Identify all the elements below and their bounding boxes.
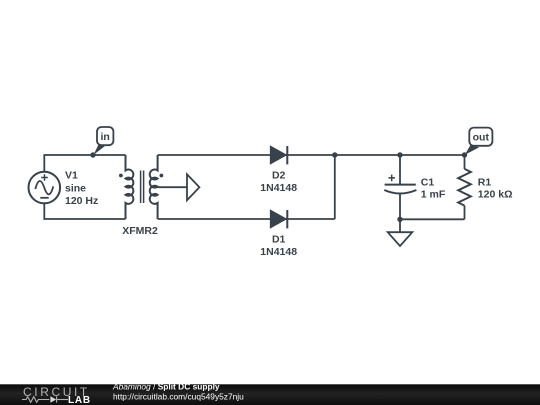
svg-text:120 Hz: 120 Hz [65, 195, 98, 207]
node in junction dot [90, 152, 95, 157]
secondary winding [150, 155, 158, 219]
phase dot primary [119, 174, 123, 178]
svg-text:120 kΩ: 120 kΩ [478, 189, 513, 201]
junction dot diodes [332, 152, 337, 157]
ground [388, 219, 413, 246]
svg-text:out: out [473, 132, 490, 144]
svg-text:1N4148: 1N4148 [260, 246, 297, 258]
center tap wire [158, 186, 187, 188]
node out junction dot [462, 152, 467, 157]
svg-text:http://circuitlab.com/cuq549y5: http://circuitlab.com/cuq549y5z7nju [113, 392, 244, 402]
wire bottom output rail [400, 218, 465, 220]
capacitor C1 [384, 155, 416, 219]
svg-text:XFMR2: XFMR2 [122, 225, 158, 237]
svg-text:in: in [101, 131, 110, 143]
wire diode junction vertical [334, 155, 336, 219]
core bars [141, 171, 144, 204]
wire bottom-left rail (V1 bottom to XFMR2 primary bottom) [44, 203, 125, 219]
svg-text:R1: R1 [478, 177, 492, 189]
svg-text:D2: D2 [272, 169, 286, 181]
wire output top rail [335, 154, 465, 156]
wire top-left rail (V1 top to XFMR2 primary top) [44, 155, 125, 172]
svg-text:sine: sine [65, 182, 86, 194]
junction dot C1 bottom [397, 217, 402, 222]
footer bar [0, 381, 540, 405]
resistor R1 [458, 155, 471, 219]
voltage source V1 [29, 172, 61, 204]
diode D1 [271, 210, 288, 228]
junction dot C1 top [397, 152, 402, 157]
net flag out [465, 128, 493, 155]
svg-text:1N4148: 1N4148 [260, 182, 297, 194]
center tap arrow [187, 174, 199, 200]
CircuitLab logo schematic line (resistor + diode) [22, 396, 68, 402]
wire secondary top rail [158, 154, 335, 156]
svg-text:C1: C1 [421, 177, 435, 189]
diode D2 [271, 146, 288, 164]
svg-text:D1: D1 [272, 233, 286, 245]
svg-text:LAB: LAB [68, 395, 91, 405]
net flag in [94, 127, 114, 155]
wire secondary bottom rail [158, 218, 335, 220]
transformer XFMR2 [119, 155, 199, 219]
svg-text:1 mF: 1 mF [421, 189, 446, 201]
svg-text:Abaminog / Split DC supply: Abaminog / Split DC supply [112, 381, 220, 391]
primary winding [126, 155, 134, 219]
phase dot secondary [160, 174, 164, 178]
svg-text:V1: V1 [65, 170, 78, 182]
